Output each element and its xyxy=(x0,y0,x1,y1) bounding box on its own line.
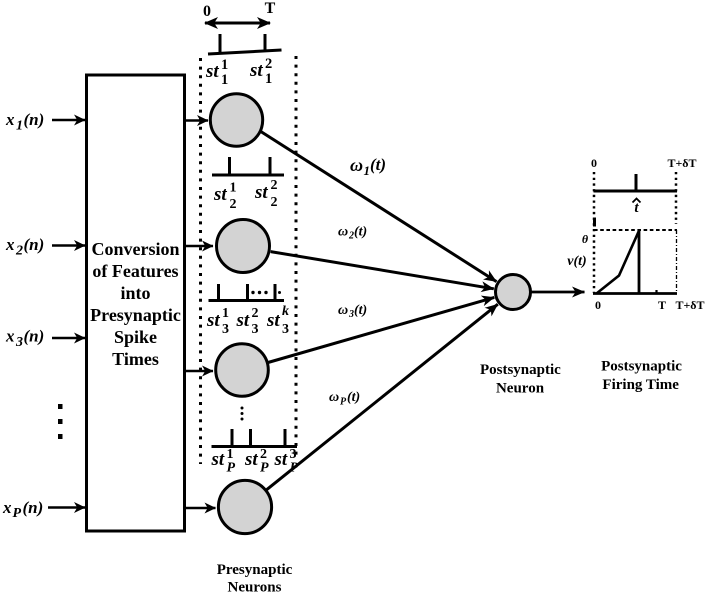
svg-text:T: T xyxy=(265,0,276,17)
svg-text:Presynaptic: Presynaptic xyxy=(217,562,293,578)
svg-text:Spike: Spike xyxy=(114,327,157,347)
svg-text:3: 3 xyxy=(252,322,259,337)
svg-text:ω: ω xyxy=(329,390,339,405)
svg-text:x: x xyxy=(5,110,15,129)
svg-text:(n): (n) xyxy=(24,327,45,346)
svg-text:into: into xyxy=(120,283,150,303)
svg-text:0: 0 xyxy=(203,3,211,20)
svg-text:ω: ω xyxy=(350,155,363,175)
svg-text:x: x xyxy=(5,327,15,346)
svg-text:(t): (t) xyxy=(354,303,367,318)
svg-text:(t): (t) xyxy=(354,225,367,240)
svg-text:st: st xyxy=(236,310,250,331)
svg-text:θ: θ xyxy=(582,232,589,246)
svg-text:1: 1 xyxy=(222,306,229,321)
svg-text:Neurons: Neurons xyxy=(228,580,282,594)
svg-text:Times: Times xyxy=(112,349,159,369)
svg-text:of Features: of Features xyxy=(92,261,178,281)
svg-text:(n): (n) xyxy=(23,498,44,517)
svg-text:(n): (n) xyxy=(24,235,45,254)
svg-text:(t): (t) xyxy=(370,155,386,174)
svg-text:st: st xyxy=(244,449,258,470)
svg-text:2: 2 xyxy=(271,178,278,193)
svg-text:st: st xyxy=(266,310,280,331)
svg-text:Postsynaptic: Postsynaptic xyxy=(601,359,682,375)
svg-text:v(t): v(t) xyxy=(567,254,586,269)
svg-text:1: 1 xyxy=(221,57,228,73)
svg-text:k: k xyxy=(282,304,289,319)
svg-text:st: st xyxy=(213,184,227,205)
svg-text:ω: ω xyxy=(338,303,348,318)
svg-text:1: 1 xyxy=(230,181,237,196)
svg-text:2: 2 xyxy=(230,197,237,212)
svg-text:Conversion: Conversion xyxy=(91,239,179,259)
svg-text:T+δT: T+δT xyxy=(667,156,696,170)
svg-text:(n): (n) xyxy=(24,110,45,129)
svg-text:0: 0 xyxy=(595,298,601,312)
svg-text:st: st xyxy=(205,61,219,82)
svg-text:0: 0 xyxy=(591,156,597,170)
svg-text:x: x xyxy=(2,498,12,517)
svg-text:2: 2 xyxy=(265,56,272,72)
svg-text:P: P xyxy=(13,506,22,521)
svg-text:Presynaptic: Presynaptic xyxy=(90,305,181,325)
svg-text:3: 3 xyxy=(222,322,229,337)
svg-text:x: x xyxy=(5,235,15,254)
svg-text:3: 3 xyxy=(282,322,289,337)
svg-text:st: st xyxy=(274,449,288,470)
svg-text:T: T xyxy=(658,298,666,312)
svg-text:Firing Time: Firing Time xyxy=(602,377,679,393)
svg-text:st: st xyxy=(254,182,268,203)
svg-text:2: 2 xyxy=(15,244,23,259)
svg-text:1: 1 xyxy=(265,71,272,87)
svg-text:Neuron: Neuron xyxy=(496,381,545,397)
svg-text:T+δT: T+δT xyxy=(675,298,704,312)
svg-text:P: P xyxy=(340,397,347,408)
svg-text:2: 2 xyxy=(271,195,278,210)
svg-text:st: st xyxy=(206,310,220,331)
svg-text:st: st xyxy=(249,60,263,81)
svg-text:P: P xyxy=(227,461,236,476)
svg-text:3: 3 xyxy=(15,335,23,350)
svg-text:ω: ω xyxy=(338,225,348,240)
svg-text:st: st xyxy=(211,449,225,470)
svg-text:1: 1 xyxy=(16,119,23,134)
svg-text:t: t xyxy=(634,200,639,216)
svg-text:Postsynaptic: Postsynaptic xyxy=(480,362,561,378)
svg-text:1: 1 xyxy=(221,72,228,88)
svg-text:2: 2 xyxy=(252,306,259,321)
svg-text:(t): (t) xyxy=(347,390,360,405)
svg-text:P: P xyxy=(260,461,269,476)
